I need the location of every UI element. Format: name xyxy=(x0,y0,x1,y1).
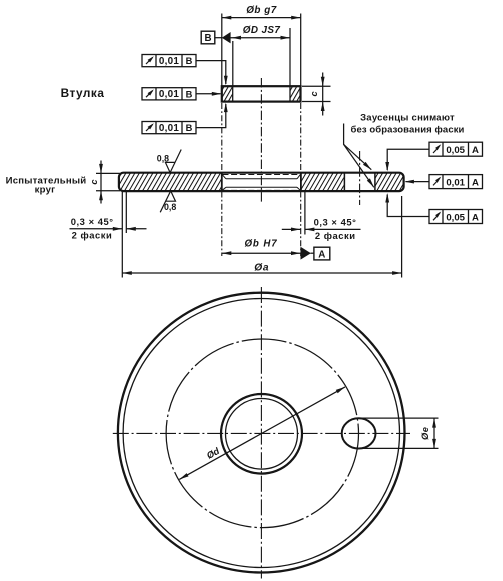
svg-text:0,01: 0,01 xyxy=(159,123,179,134)
leader frame3 xyxy=(196,104,226,128)
svg-text:В: В xyxy=(186,123,193,133)
roughness 0,8 bottom xyxy=(160,191,175,212)
svg-text:Заусенцы снимают: Заусенцы снимают xyxy=(360,113,455,124)
tolerance frame 1 (0,01 B) xyxy=(142,55,196,68)
svg-text:2 фаски: 2 фаски xyxy=(72,229,113,240)
svg-text:0,01: 0,01 xyxy=(159,89,179,100)
svg-text:0,3 × 45°: 0,3 × 45° xyxy=(71,216,114,227)
svg-text:А: А xyxy=(472,145,479,156)
bushing right wall hatch xyxy=(290,87,300,101)
extension line left Ob xyxy=(221,14,223,87)
hole far top face edge (dashed) xyxy=(223,174,301,176)
svg-text:0,8: 0,8 xyxy=(164,202,176,212)
svg-text:0,05: 0,05 xyxy=(446,212,465,223)
dimension OD JS7 left arrow xyxy=(232,36,242,40)
svg-text:0,01: 0,01 xyxy=(159,56,179,67)
hole chamfer top inner line xyxy=(226,178,297,180)
extension line OD left xyxy=(232,41,234,86)
leader frame1 xyxy=(196,61,226,84)
svg-text:ØD JS7: ØD JS7 xyxy=(243,25,281,36)
hole e right edge xyxy=(374,174,376,191)
Ob H7 right arrow xyxy=(291,251,301,255)
right tolerance frame 1 (0,05 A) xyxy=(429,142,483,156)
extension line right Ob xyxy=(300,14,302,87)
chamfer dim right: line with arrows xyxy=(282,228,301,230)
svg-text:Øe: Øe xyxy=(420,427,430,440)
dimension Ob g7 left arrow xyxy=(222,16,232,20)
rim circle xyxy=(123,299,399,568)
svg-text:0,05: 0,05 xyxy=(446,145,465,156)
dimension OD JS7 right arrow xyxy=(281,36,291,40)
leader right frame1 xyxy=(387,149,429,170)
bushing bore left edge xyxy=(232,86,234,101)
dimension Ob g7 right arrow xyxy=(291,16,301,20)
center hole circle xyxy=(221,394,302,474)
extension line OD right xyxy=(289,28,291,86)
c dimension left of disc xyxy=(96,172,120,174)
burr leader xyxy=(344,124,372,170)
leader right frame3 xyxy=(387,195,429,217)
vertical centerline xyxy=(260,287,262,579)
chamfer dim right: extension line xyxy=(304,192,306,235)
svg-text:Øb g7: Øb g7 xyxy=(246,5,276,16)
chamfer dim left: extension lines xyxy=(125,192,127,233)
svg-text:Втулка: Втулка xyxy=(61,86,105,100)
hole chamfer bottom inner line xyxy=(226,186,297,188)
svg-text:без образования фаски: без образования фаски xyxy=(350,125,464,136)
Oa extension lines xyxy=(121,192,123,278)
hole e centerline xyxy=(359,151,361,205)
leader right frame2 xyxy=(406,181,430,183)
disc hole left bore edge xyxy=(221,174,223,191)
right tolerance frame 3 (0,05 A) xyxy=(429,210,483,224)
extension dash line x=222 between views xyxy=(221,103,223,172)
bushing centerline xyxy=(260,78,262,202)
tolerance frame 2 (0,01 B) xyxy=(142,88,196,101)
dimension Ob g7 line xyxy=(222,17,301,19)
hole e circle xyxy=(342,418,376,448)
bushing bore right edge xyxy=(289,86,291,101)
svg-text:0,3 × 45°: 0,3 × 45° xyxy=(314,217,357,228)
hole chamfer corner ticks xyxy=(222,175,226,179)
svg-text:В: В xyxy=(186,89,193,99)
datum A connector xyxy=(311,252,315,254)
disc hatch left segment xyxy=(118,173,222,191)
datum B box xyxy=(201,31,215,44)
tolerance frame 3 (0,01 B) xyxy=(142,122,196,135)
hole far bottom face edge (dashed) xyxy=(223,189,301,191)
svg-text:0,01: 0,01 xyxy=(446,177,465,188)
svg-text:А: А xyxy=(472,212,479,223)
bushing left wall hatch xyxy=(223,87,233,101)
svg-text:круг: круг xyxy=(35,184,56,195)
svg-text:В: В xyxy=(186,56,193,66)
svg-text:В: В xyxy=(204,33,211,44)
svg-text:c: c xyxy=(89,179,99,184)
dimension Ob H7 line xyxy=(222,252,301,254)
svg-text:c: c xyxy=(309,91,319,96)
datum A box xyxy=(314,247,330,260)
disc hole right bore edge xyxy=(300,174,302,191)
datum A triangle on Ob H7 xyxy=(301,247,311,260)
svg-text:Øa: Øa xyxy=(254,263,269,274)
svg-text:2 фаски: 2 фаски xyxy=(315,230,356,241)
datum B connector xyxy=(215,37,222,39)
disc hatch right segment xyxy=(375,173,404,191)
svg-text:А: А xyxy=(318,249,325,260)
datum B triangle xyxy=(222,32,231,43)
Od diagonal dimension xyxy=(179,387,345,480)
horizontal centerline xyxy=(113,432,410,434)
outer circle xyxy=(118,293,405,573)
Oe dimension xyxy=(359,417,439,419)
svg-text:Øb H7: Øb H7 xyxy=(244,239,277,250)
bushing body outline xyxy=(222,86,301,101)
dimension OD JS7 line xyxy=(231,37,291,39)
hole e left edge xyxy=(343,174,345,191)
chamfer dim left: line with arrows xyxy=(70,228,123,230)
c dimension line xyxy=(322,73,324,116)
svg-text:А: А xyxy=(472,177,479,188)
c dimension right of bushing: extension lines xyxy=(302,85,331,87)
dimension Oa line xyxy=(122,272,401,274)
leader frame2 xyxy=(196,93,221,95)
extension dash line x=300.7 between views xyxy=(300,103,302,172)
pitch circle xyxy=(166,339,358,528)
right tolerance frame 2 (0,01 A) xyxy=(429,175,483,189)
svg-text:Ød: Ød xyxy=(205,446,221,461)
center hole chamfer circle xyxy=(226,399,298,470)
disc hatch middle segment xyxy=(302,173,344,191)
